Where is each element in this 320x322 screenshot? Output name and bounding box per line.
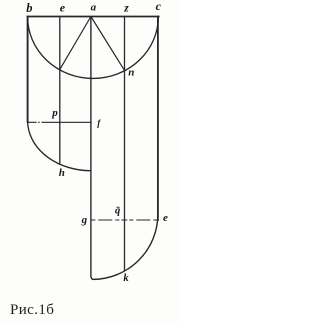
svg-text:f: f bbox=[97, 118, 101, 128]
radius a to n bbox=[91, 17, 125, 71]
lower-left arc b1 to h to axis bbox=[28, 123, 91, 171]
svg-text:k: k bbox=[123, 273, 129, 284]
svg-text:z: z bbox=[123, 2, 129, 14]
vertical from c bbox=[157, 16, 159, 221]
vertical axis from a bbox=[90, 17, 92, 278]
point labels bbox=[26, 0, 168, 284]
svg-text:p: p bbox=[51, 107, 58, 119]
svg-text:e: e bbox=[163, 212, 168, 224]
horizontal pf line bbox=[28, 121, 92, 123]
top line bc bbox=[27, 16, 160, 18]
svg-text:a: a bbox=[91, 2, 97, 14]
vertical from z bbox=[124, 17, 126, 272]
vertical from b bbox=[27, 16, 29, 123]
bottom-right arc e to k to axis bottom bbox=[91, 214, 158, 279]
vertical from e bbox=[59, 17, 61, 164]
dash-dot line g q e bbox=[91, 219, 158, 221]
curl over q bbox=[117, 206, 120, 209]
svg-text:c: c bbox=[156, 0, 162, 13]
radius a to left junction bbox=[60, 17, 91, 70]
svg-text:n: n bbox=[128, 67, 134, 79]
semicircle on bc centered at a bbox=[28, 17, 159, 79]
caption bbox=[10, 302, 54, 319]
svg-text:b: b bbox=[26, 1, 32, 15]
svg-text:g: g bbox=[81, 214, 88, 226]
svg-text:e: e bbox=[60, 1, 66, 15]
svg-text:h: h bbox=[59, 167, 65, 179]
